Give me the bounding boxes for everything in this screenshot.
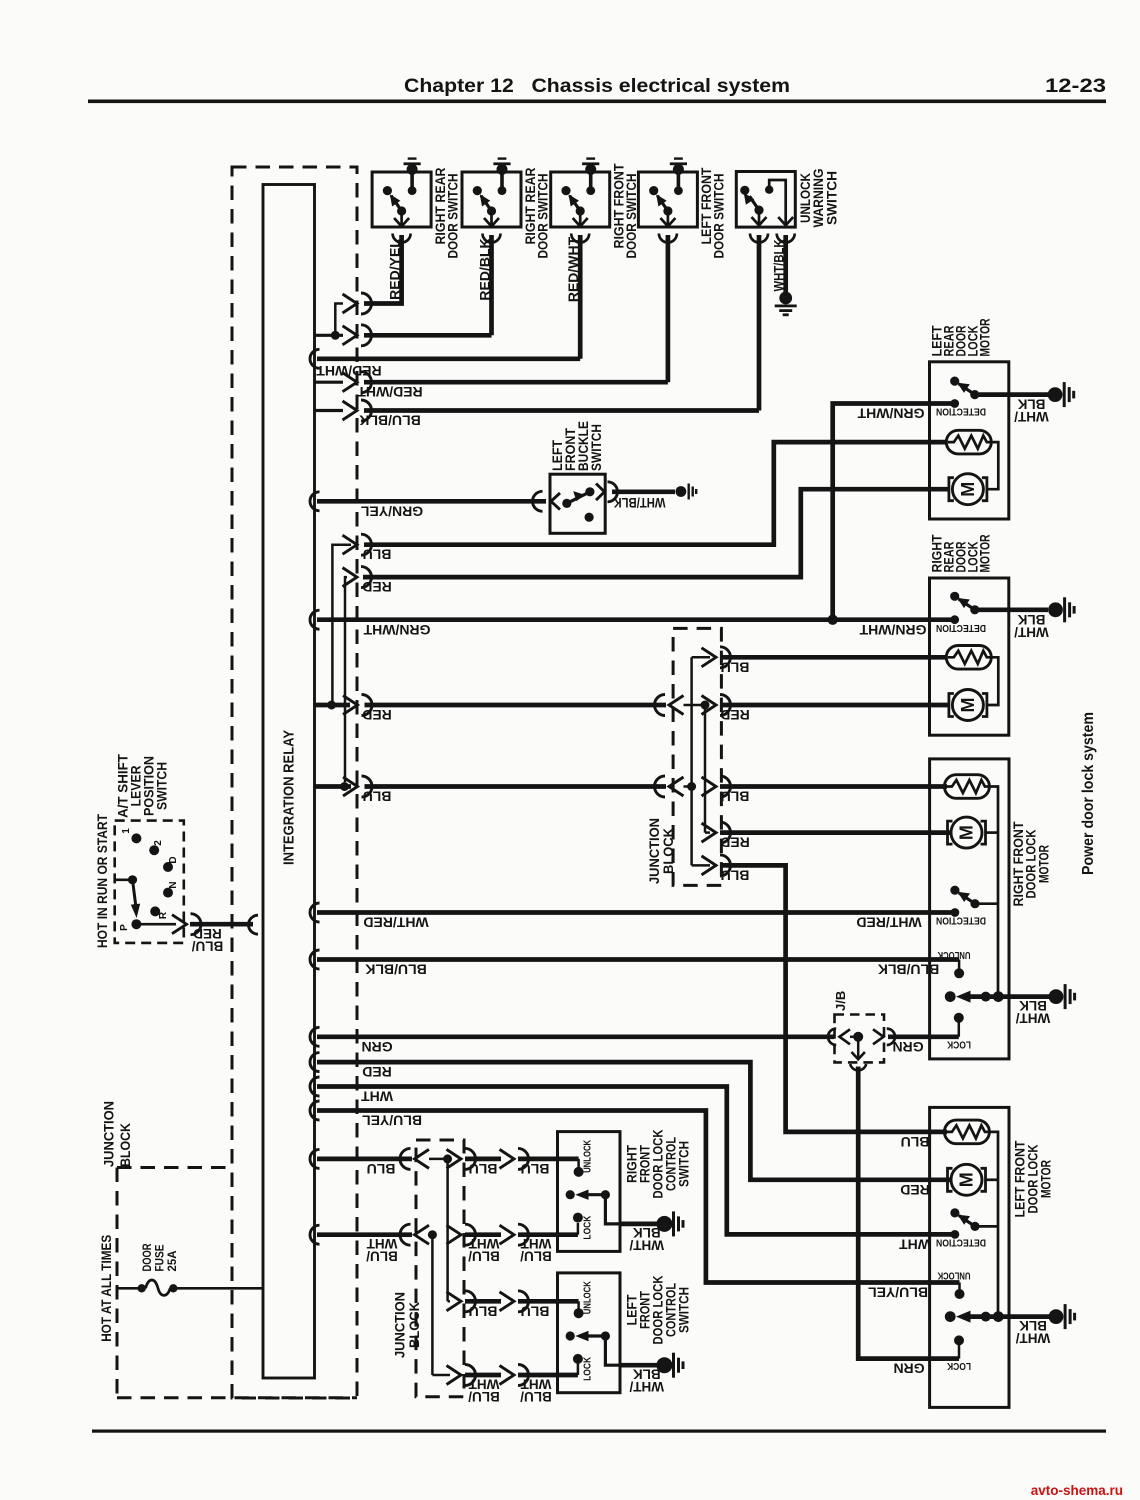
unlock contact [955, 1289, 965, 1299]
left rear motor resistor [946, 430, 991, 454]
left rear motor ground WHT/BLK [979, 392, 1048, 397]
wire BLU to right front door lock control switch unlock [310, 1149, 320, 1168]
svg-text:GRN/YEL: GRN/YEL [360, 503, 423, 519]
svg-text:D: D [168, 856, 179, 863]
wire GRN via J/B to right front motor lock [310, 1027, 320, 1046]
junction block RED lower branch to right front motor M [705, 831, 710, 834]
svg-text:BLU: BLU [521, 1161, 550, 1177]
svg-text:M: M [957, 825, 977, 840]
right rear motor internal link [987, 657, 998, 705]
svg-text:WHT/: WHT/ [1016, 1010, 1051, 1025]
wire WHT/RED to right front motor detection [310, 903, 320, 922]
svg-text:UNLOCK: UNLOCK [582, 1140, 594, 1173]
J/B branch down to left front motor lock (GRN) [857, 1037, 860, 1059]
svg-text:MOTOR: MOTOR [977, 319, 993, 357]
svg-text:avto-shema.ru: avto-shema.ru [1031, 1483, 1123, 1498]
wire BLU/WHT to right front door lock control switch lock [310, 1225, 320, 1244]
left rear motor detection contact [950, 399, 959, 408]
connector below box [393, 234, 411, 243]
motor M [948, 1164, 986, 1195]
svg-text:WHT/: WHT/ [1014, 624, 1049, 639]
svg-text:WHT/: WHT/ [629, 1379, 664, 1394]
right-side link down to ground wire [989, 1132, 998, 1317]
svg-text:LOCK: LOCK [582, 1357, 594, 1381]
svg-text:RED: RED [720, 707, 750, 723]
right front door lock motor [930, 759, 1009, 1059]
wire GRN/YEL to buckle switch [310, 492, 320, 511]
svg-text:BLU/YEL: BLU/YEL [868, 1285, 928, 1301]
ground (top) [582, 157, 599, 175]
svg-text:25A: 25A [165, 1250, 179, 1271]
svg-text:BLU/: BLU/ [366, 1249, 398, 1264]
wire BLU/RED from A/T switch to relay [141, 923, 176, 926]
svg-text:LOCK: LOCK [582, 1215, 594, 1239]
svg-text:BLU/: BLU/ [520, 1249, 552, 1264]
left rear motor switch arm [950, 377, 979, 400]
unlock contact [954, 968, 964, 978]
svg-text:WHT/RED: WHT/RED [363, 915, 428, 931]
wire RED/WHT to right front door switch [310, 349, 320, 368]
svg-text:WHT/: WHT/ [1014, 409, 1049, 424]
svg-text:WHT/BLK: WHT/BLK [614, 495, 666, 511]
svg-text:BLU: BLU [521, 1303, 550, 1319]
right-side link down to ground wire [989, 787, 998, 997]
svg-text:DOOR SWITCH: DOOR SWITCH [444, 174, 460, 259]
svg-text:BLU/: BLU/ [192, 938, 224, 953]
connector below box [659, 234, 677, 243]
svg-text:DETECTION: DETECTION [936, 915, 986, 927]
door switch box [462, 172, 521, 227]
svg-text:LOCK: LOCK [947, 1038, 971, 1050]
right rear motor switch arm [950, 592, 979, 615]
svg-text:WHT/: WHT/ [629, 1238, 664, 1253]
svg-text:Chapter 12 Chassis electrica: Chapter 12 Chassis electrical system [404, 75, 790, 97]
left front door lock motor [930, 1107, 1009, 1407]
svg-text:GRN/WHT: GRN/WHT [859, 622, 926, 638]
wire BLU to left front door lock control switch unlock [448, 1300, 450, 1303]
right rear door lock motor [930, 578, 1009, 735]
svg-text:DETECTION: DETECTION [936, 1237, 986, 1249]
svg-text:BLU: BLU [721, 789, 750, 805]
svg-text:GRN: GRN [893, 1361, 924, 1377]
svg-text:12-23: 12-23 [1045, 75, 1106, 97]
svg-text:Power door lock system: Power door lock system [1080, 712, 1097, 875]
right rear motor resistor [946, 646, 991, 670]
svg-text:SWITCH: SWITCH [676, 1287, 692, 1333]
svg-text:RED: RED [900, 1182, 930, 1198]
buckle switch internals [533, 491, 543, 511]
svg-text:P: P [119, 924, 130, 931]
svg-text:RED/YEL: RED/YEL [387, 239, 403, 300]
motor M [948, 817, 986, 848]
svg-text:BLU/: BLU/ [468, 1389, 500, 1404]
svg-text:GRN: GRN [361, 1039, 392, 1055]
door switch box [551, 172, 610, 227]
svg-text:DETECTION: DETECTION [936, 406, 986, 418]
wire RED/WHT to left front door switch [314, 381, 343, 384]
svg-text:BLU/BLK: BLU/BLK [365, 962, 426, 978]
integration relay box [263, 185, 315, 1379]
svg-text:RED: RED [362, 707, 392, 723]
svg-text:WHT/RED: WHT/RED [856, 915, 921, 931]
switch contacts and arm [677, 170, 681, 191]
detection contact [951, 908, 960, 917]
switch contacts and arm [589, 170, 593, 191]
wire RED from relay through junction block to motor M terminals [314, 703, 350, 708]
svg-text:MOTOR: MOTOR [1038, 1160, 1054, 1198]
wire RED/YEL to right rear door switch [364, 235, 402, 304]
A/T shift lever position switch (dashed box) [115, 821, 184, 943]
wire BLU from relay through junction block (three branches) [314, 784, 351, 789]
svg-text:BLU: BLU [721, 867, 750, 883]
right rear motor detection contact [950, 615, 959, 624]
svg-text:RED: RED [362, 579, 392, 595]
svg-text:R: R [158, 911, 169, 919]
detection contact [951, 1230, 960, 1239]
wire GRN/WHT to rear door lock motor detection contacts [310, 610, 320, 629]
svg-text:1: 1 [121, 828, 132, 834]
unlock warning switch internals [740, 186, 749, 195]
unlock warning switch box [736, 172, 795, 228]
svg-text:UNLOCK: UNLOCK [937, 1270, 970, 1282]
right rear motor ground WHT/BLK [979, 607, 1048, 612]
svg-text:SWITCH: SWITCH [589, 424, 604, 471]
svg-text:WHT: WHT [361, 1089, 393, 1105]
junction block (left, dashed) around integration relay [232, 167, 357, 1398]
door switch box [638, 172, 697, 227]
svg-text:BLU: BLU [469, 1303, 498, 1319]
ground (top) [404, 157, 421, 175]
svg-text:RED/WHT: RED/WHT [565, 236, 581, 302]
unlock warning switch ground wire WHT/BLK [783, 235, 788, 293]
svg-text:RED/WHT: RED/WHT [357, 384, 423, 400]
junction block (bottom, dashed) [416, 1140, 464, 1397]
wire BLU to left rear door lock motor resistor [332, 545, 351, 701]
svg-text:M: M [957, 1172, 977, 1187]
wire BLU/YEL to left front motor unlock [310, 1101, 320, 1120]
A/T switch feed and arm [115, 878, 133, 881]
left rear door lock motor [930, 362, 1009, 519]
wire RED to left rear door lock motor M [345, 577, 347, 782]
svg-text:UNLOCK: UNLOCK [937, 949, 970, 961]
junction block BLU upper branch to right rear motor resistor [692, 656, 710, 659]
switch contacts and arm [500, 170, 504, 191]
svg-text:BLU: BLU [469, 1161, 498, 1177]
right front door lock control switch [558, 1132, 621, 1252]
ground wire WHT/BLK [945, 1311, 956, 1322]
svg-text:GRN/WHT: GRN/WHT [363, 622, 430, 638]
svg-text:J/B: J/B [833, 991, 848, 1011]
ground (top) [493, 157, 510, 175]
ground wire WHT/BLK [945, 991, 956, 1002]
svg-text:BLU/: BLU/ [468, 1249, 500, 1264]
svg-text:UNLOCK: UNLOCK [582, 1281, 594, 1314]
svg-text:BLU: BLU [363, 547, 392, 563]
svg-text:HOT IN RUN OR START: HOT IN RUN OR START [95, 813, 110, 948]
connector below box [571, 234, 589, 243]
buckle switch ground wire WHT/BLK [612, 489, 675, 494]
svg-text:M: M [958, 698, 978, 713]
svg-text:N: N [168, 881, 179, 888]
switch arm [950, 886, 979, 909]
svg-text:HOT AT ALL TIMES: HOT AT ALL TIMES [99, 1235, 114, 1342]
junction block BLU branch down [446, 1159, 449, 1301]
right rear motor M [949, 690, 987, 721]
wire BLU/WHT to left front door lock control switch lock [432, 1374, 450, 1377]
connector below box [483, 234, 501, 243]
footer rule [92, 1430, 1106, 1433]
wire BLU/BLK to unlock warning switch [314, 409, 343, 412]
svg-text:SWITCH: SWITCH [823, 171, 839, 225]
hot at all times box (dashed) [117, 1166, 232, 1169]
svg-text:GRN/WHT: GRN/WHT [857, 406, 924, 422]
left front door lock control switch [558, 1273, 621, 1393]
svg-text:MOTOR: MOTOR [977, 535, 993, 573]
svg-text:MOTOR: MOTOR [1036, 845, 1052, 883]
junction block BLU/WHT branch down [431, 1235, 434, 1375]
svg-text:SWITCH: SWITCH [155, 762, 170, 810]
wire RED/BLK to right rear door switch 2 [314, 334, 343, 337]
svg-text:BLU/YEL: BLU/YEL [362, 1113, 422, 1129]
wire BLU/BLK to right front motor unlock [310, 950, 320, 969]
left rear motor internal link [987, 442, 998, 489]
wire RED to left front motor M [310, 1053, 320, 1072]
svg-text:RED/BLK: RED/BLK [477, 238, 493, 300]
svg-text:BLU: BLU [721, 659, 750, 675]
J/B junction box (dashed) [835, 1015, 885, 1063]
svg-text:BLOCK: BLOCK [117, 1123, 133, 1167]
svg-text:BLU: BLU [901, 1134, 930, 1150]
svg-text:RED: RED [720, 835, 750, 851]
svg-text:LOCK: LOCK [947, 1360, 971, 1372]
svg-text:DOOR SWITCH: DOOR SWITCH [623, 174, 639, 259]
A/T switch position contacts [131, 833, 141, 843]
svg-text:BLU/: BLU/ [520, 1389, 552, 1404]
header rule [88, 100, 1106, 104]
svg-text:SWITCH: SWITCH [676, 1141, 692, 1187]
svg-text:BLOCK: BLOCK [406, 1302, 422, 1348]
junction block (middle, dashed) [673, 628, 721, 885]
svg-text:DETECTION: DETECTION [936, 622, 986, 634]
svg-text:DOOR SWITCH: DOOR SWITCH [711, 174, 727, 259]
left front buckle switch box [550, 474, 605, 533]
svg-text:INTEGRATION RELAY: INTEGRATION RELAY [282, 730, 298, 865]
door switch box [372, 172, 431, 227]
switch arm [950, 1208, 979, 1231]
svg-text:BLU/BLK: BLU/BLK [359, 413, 420, 429]
svg-text:DOOR SWITCH: DOOR SWITCH [534, 174, 550, 259]
switch contacts and arm [410, 170, 414, 191]
svg-text:BLU: BLU [363, 789, 392, 805]
resistor [944, 775, 989, 799]
svg-text:WHT/: WHT/ [1016, 1330, 1051, 1345]
svg-text:2: 2 [153, 840, 164, 846]
door fuse 25A [117, 1287, 139, 1290]
svg-text:WHT/BLK: WHT/BLK [772, 239, 787, 291]
svg-text:BLU: BLU [367, 1161, 396, 1177]
ground (top) [670, 157, 687, 175]
left rear motor M [949, 474, 987, 505]
svg-text:GRN: GRN [892, 1039, 923, 1055]
junction block BLU lower branch to left front motor resistor [692, 864, 710, 867]
svg-text:JUNCTION: JUNCTION [101, 1101, 117, 1167]
svg-text:WHT: WHT [899, 1236, 931, 1252]
resistor [944, 1120, 989, 1144]
wire WHT to left front motor detection [310, 1077, 320, 1096]
svg-text:M: M [958, 482, 978, 497]
svg-text:RED: RED [362, 1064, 392, 1080]
svg-text:BLOCK: BLOCK [660, 828, 676, 874]
